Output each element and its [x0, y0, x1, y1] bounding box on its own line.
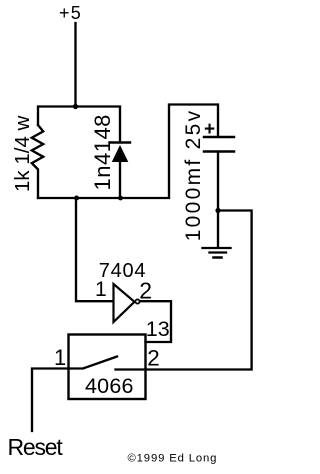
svg-text:1: 1: [54, 345, 66, 370]
svg-text:©1999 Ed Long: ©1999 Ed Long: [128, 453, 218, 465]
svg-text:+: +: [204, 119, 215, 140]
svg-text:Reset: Reset: [8, 434, 64, 460]
svg-text:2: 2: [147, 346, 160, 371]
svg-text:+5: +5: [59, 3, 82, 23]
svg-text:1000mf 25v: 1000mf 25v: [182, 109, 205, 242]
svg-text:13: 13: [146, 317, 170, 341]
svg-text:2: 2: [139, 278, 152, 304]
svg-text:1n4148: 1n4148: [90, 114, 115, 190]
svg-text:4066: 4066: [85, 374, 134, 398]
svg-text:1k 1/4 w: 1k 1/4 w: [11, 115, 34, 192]
svg-text:1: 1: [95, 278, 107, 301]
